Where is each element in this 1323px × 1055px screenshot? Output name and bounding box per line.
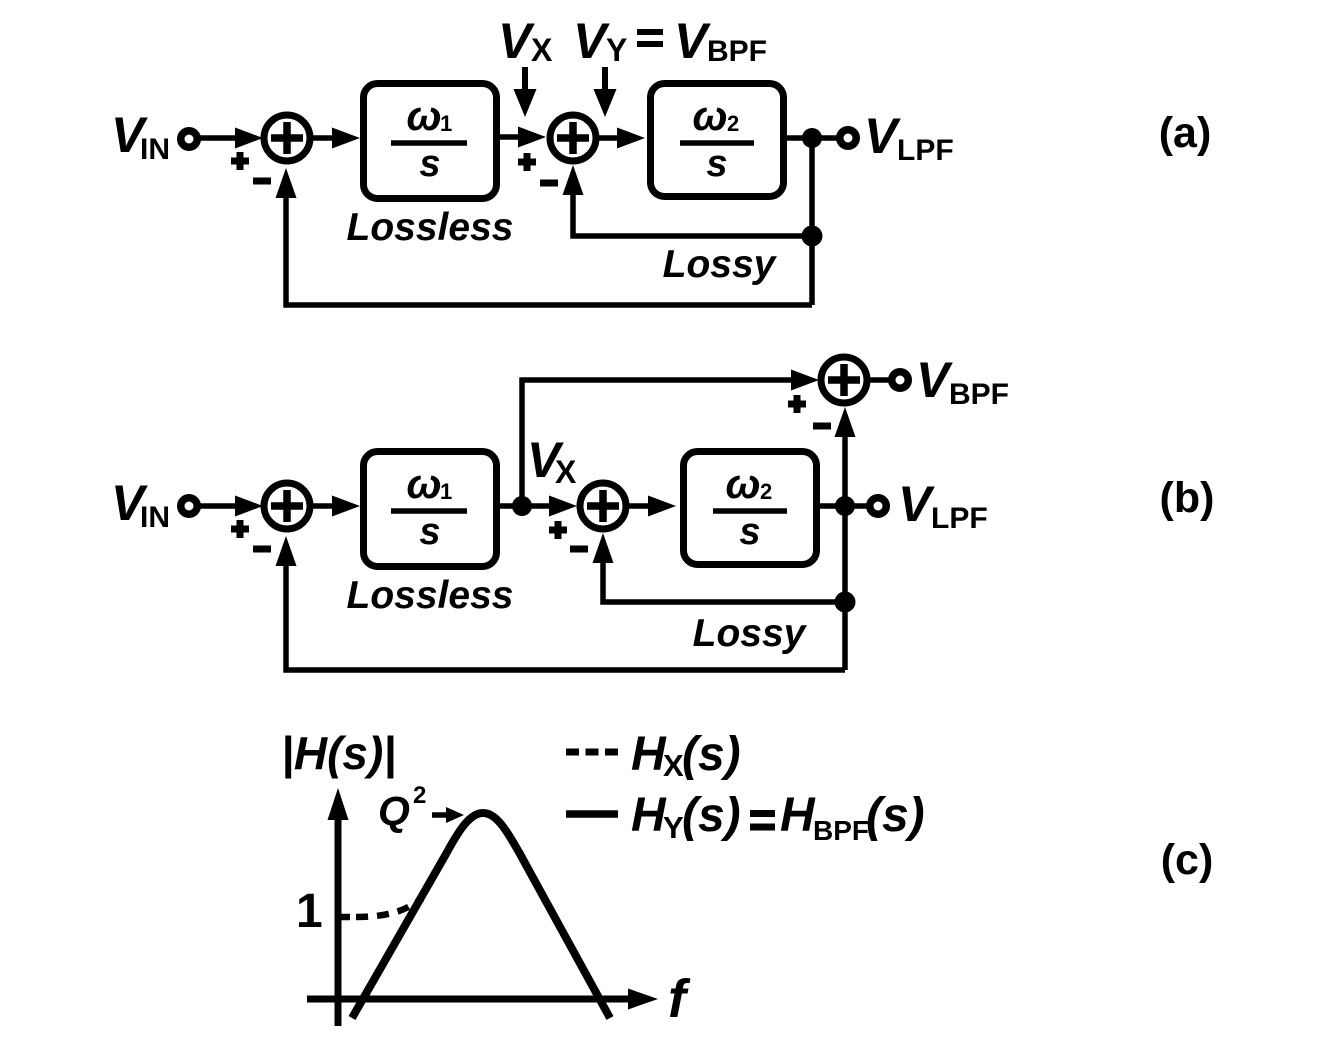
svg-text:ω: ω (406, 92, 441, 139)
arrow VY pointer (a) (594, 67, 617, 117)
node VX label (b) (527, 432, 577, 490)
svg-text:X: X (531, 32, 553, 68)
summer S2a (550, 115, 596, 161)
output terminal VLPF (a) (840, 130, 857, 147)
summer S2b (580, 483, 626, 529)
svg-text:s: s (739, 511, 760, 553)
legend solid sample (566, 810, 618, 818)
svg-text:LPF: LPF (931, 502, 988, 535)
svg-text:BPF: BPF (949, 378, 1009, 411)
junction node VLPF (a) (802, 128, 822, 148)
svg-text:s: s (419, 511, 440, 553)
node VX label (a) (498, 13, 553, 69)
svg-text:s: s (419, 143, 440, 185)
svg-text:Lossless: Lossless (347, 574, 514, 617)
wire lossy feedback to S2a (563, 165, 813, 236)
node VLPF label (a) (864, 108, 954, 167)
svg-text:Lossy: Lossy (663, 243, 778, 286)
wire S2a to integrator block B2a (598, 128, 645, 149)
svg-text:1: 1 (296, 885, 323, 938)
svg-text:2: 2 (413, 782, 426, 809)
svg-text:LPF: LPF (897, 134, 954, 167)
svg-text:Y: Y (606, 32, 627, 68)
svg-text:BPF: BPF (813, 815, 869, 846)
plus sign at S1b (231, 520, 249, 538)
label w1/s in B1b (391, 460, 467, 553)
minus sign at S3b (813, 423, 831, 430)
svg-text:IN: IN (140, 133, 170, 166)
wire outer feedback to S1b (276, 536, 846, 670)
svg-text:(s): (s) (682, 789, 741, 842)
svg-text:H: H (631, 728, 667, 781)
input terminal (b) (181, 498, 198, 515)
svg-text:V: V (898, 476, 935, 532)
wire lossy feedback to S2b (593, 533, 846, 602)
svg-text:IN: IN (140, 501, 170, 534)
wire B2a to output terminal (787, 135, 842, 141)
svg-text:V: V (916, 352, 953, 408)
x axis (307, 989, 658, 1010)
svg-text:(c): (c) (1161, 836, 1214, 884)
wire output down to feedback (a) (809, 138, 815, 305)
svg-text:V: V (498, 13, 535, 69)
label w1/s in B1a (391, 92, 467, 185)
integrator block B1b w1/s (364, 452, 497, 567)
svg-text:ω: ω (692, 92, 727, 139)
label w2/s in B2b (713, 460, 787, 553)
svg-text:V: V (573, 13, 610, 69)
minus sign at S1a (253, 178, 271, 185)
svg-text:ω: ω (406, 460, 441, 507)
wire VX feedforward to summer S3b (522, 370, 819, 507)
svg-text:V: V (674, 13, 711, 69)
solid curve HY(s) bandpass (352, 813, 610, 1018)
label Q^2 (378, 782, 426, 834)
legend label HY(s) = HBPF(s) (631, 789, 925, 846)
svg-text:H: H (631, 789, 667, 842)
wire VIN to summer S1a (200, 128, 263, 149)
svg-text:(a): (a) (1159, 109, 1212, 157)
svg-text:1: 1 (440, 479, 452, 504)
node VIN label (a) (111, 107, 170, 166)
svg-text:s: s (706, 143, 727, 185)
wire S2b to integrator block B2b (628, 496, 676, 517)
dashed curve HX(s) (356, 899, 422, 917)
svg-text:(s): (s) (682, 728, 741, 781)
legend label HX(s) (631, 728, 741, 783)
svg-text:ω: ω (725, 460, 760, 507)
wire B1a to summer S2a (500, 127, 546, 148)
wire VLPF down to feedback (b) (842, 506, 848, 670)
output terminal VLPF (b) (870, 498, 887, 515)
label w2/s in B2a (680, 92, 754, 185)
wire B1b to summer S2b (500, 496, 577, 517)
output terminal VBPF (b) (892, 372, 909, 389)
svg-text:Y: Y (663, 810, 684, 845)
wire VLPF up to summer S3b (835, 407, 856, 506)
input terminal (a) (181, 131, 198, 148)
plus sign at S1a (231, 152, 249, 170)
plus sign at S3b (788, 395, 806, 413)
svg-text:V: V (864, 108, 901, 164)
junction lossy tap (b) (835, 592, 856, 613)
wire B2b to output terminal (820, 503, 872, 509)
y axis (328, 788, 349, 1026)
wire S1b to integrator block B1b (312, 496, 360, 517)
plus sign at S2b (549, 521, 567, 539)
svg-text:1: 1 (440, 111, 452, 136)
svg-text:BPF: BPF (707, 35, 767, 68)
summer S1a (264, 115, 310, 161)
node VY = VBPF label (a) (573, 13, 767, 69)
integrator block B2b w2/s (684, 452, 817, 565)
svg-text:H: H (780, 789, 816, 842)
junction node VLPF (b) (835, 496, 855, 516)
junction lossy tap (a) (802, 226, 823, 247)
wire S3b to output terminal VBPF (869, 377, 894, 383)
integrator block B1a w1/s (364, 84, 497, 199)
wire S1a to integrator block B1a (312, 128, 360, 149)
minus sign at S2b (570, 546, 588, 553)
svg-text:Q: Q (378, 788, 410, 834)
minus sign at S2a (540, 180, 558, 187)
minus sign at S1b (253, 546, 271, 553)
arrow VX pointer (a) (514, 67, 537, 117)
svg-text:Lossy: Lossy (693, 612, 808, 655)
svg-text:Lossless: Lossless (347, 206, 514, 249)
wire VIN to summer S1b (200, 496, 263, 517)
svg-text:X: X (555, 454, 577, 490)
svg-text:(s): (s) (866, 789, 925, 842)
node VLPF label (b) (898, 476, 988, 535)
svg-text:2: 2 (727, 111, 739, 136)
arrow Q^2 pointer (432, 807, 464, 823)
wire outer feedback to S1a (276, 168, 813, 305)
plus sign at S2a (518, 153, 536, 171)
node VIN label (b) (111, 475, 170, 534)
tick mark at 1 (335, 914, 350, 921)
summer S1b (264, 483, 310, 529)
svg-text:2: 2 (760, 479, 772, 504)
integrator block B2a w2/s (651, 84, 784, 197)
legend dashed sample (566, 749, 618, 756)
node VBPF label (b) (916, 352, 1009, 411)
junction node VX (b) (512, 496, 532, 516)
svg-text:(b): (b) (1160, 474, 1215, 522)
summer S3b (821, 357, 867, 403)
svg-text:X: X (663, 748, 684, 783)
svg-text:|H(s)|: |H(s)| (281, 727, 396, 779)
